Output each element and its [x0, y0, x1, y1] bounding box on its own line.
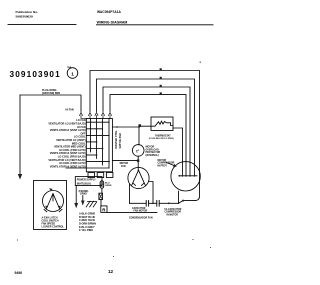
switch junction b: [96, 128, 98, 130]
fan motor windings: [132, 170, 146, 185]
switch junction h: [90, 148, 92, 150]
terminal pin 3: [102, 113, 105, 119]
switch junction d: [96, 141, 98, 143]
svg-text:THERMOSTAT: THERMOSTAT: [155, 134, 171, 137]
fan capacitor plates: [146, 200, 148, 206]
svg-text:309103901: 309103901: [10, 70, 61, 79]
rotated switch name: [115, 130, 122, 148]
header publication label: [16, 10, 39, 18]
splice tab on L4: [160, 92, 162, 94]
svg-text:FA CAPACITOR: FA CAPACITOR: [165, 208, 182, 211]
svg-text:GRND: GRND: [80, 194, 87, 196]
overload protector: [132, 145, 144, 157]
switch junction c: [102, 135, 104, 137]
switch row wire 6: [86, 154, 96, 156]
chassis ground symbol: [86, 201, 97, 207]
compressor terminal dots: [179, 175, 181, 177]
ground lead arrow: [82, 196, 84, 201]
svg-text:TAB: TAB: [67, 66, 72, 69]
svg-text:FAN MOTOR: FAN MOTOR: [134, 210, 148, 213]
svg-text:(COOLING OR LO FRIO): (COOLING OR LO FRIO): [149, 138, 174, 140]
power cord down lead: [19, 95, 21, 175]
fuse link: [100, 181, 104, 188]
fan motor left lead: [129, 184, 131, 203]
switch row wire 4: [86, 141, 96, 143]
svg-text:COMPRESSOR: COMPRESSOR: [165, 212, 182, 214]
wire loop L3: [103, 87, 190, 176]
switch row wire 7: [86, 161, 109, 163]
compressor motor: [171, 162, 200, 191]
svg-text:VENTILATOR HI (VENT ALTO): VENTILATOR HI (VENT ALTO): [50, 164, 86, 168]
fuse label: [105, 182, 112, 187]
part number 309103901: [10, 70, 61, 79]
compressor capacitor plates: [157, 200, 159, 206]
svg-text:Publication No.: Publication No.: [16, 10, 39, 14]
svg-text:t°: t°: [136, 148, 139, 153]
thermostat junction: [138, 124, 141, 127]
svg-text:(WHT) (BLK): (WHT) (BLK): [77, 182, 91, 185]
svg-text:WIRING DIAGRAM: WIRING DIAGRAM: [97, 21, 128, 25]
terminal pin 1: [89, 113, 92, 119]
splice tab on L2: [160, 77, 162, 79]
switch row wire 8: [66, 167, 109, 169]
knob feet: [44, 209, 62, 212]
power supply box: [75, 177, 102, 186]
capacitor junction 2: [168, 202, 170, 204]
power cord arrowhead: [18, 174, 22, 180]
thermostat feed wire: [112, 126, 139, 128]
interlock block: [101, 188, 103, 193]
knob pointer mark: [49, 188, 53, 191]
knob dial: [43, 191, 64, 212]
wire loop L4: [110, 95, 186, 176]
svg-text:12: 12: [108, 269, 114, 274]
fan motor right lead: [149, 182, 153, 204]
white lead arrow: [75, 186, 77, 204]
hook junction: [182, 200, 184, 202]
svg-text:5995209029: 5995209029: [16, 14, 33, 18]
switch row wire 1: [86, 121, 109, 123]
switch internal bus 1: [90, 119, 92, 153]
header left rule: [8, 24, 76, 26]
switch connector block 3: [106, 173, 113, 178]
motor compressor label: [158, 160, 175, 167]
switch junction e: [102, 148, 104, 150]
header model number: [97, 10, 121, 14]
switch internal bus 4: [108, 119, 110, 169]
compressor terminal bar: [179, 175, 197, 177]
svg-text:CONDENSADOR FAN: CONDENSADOR FAN: [129, 216, 153, 219]
thermostat contact: [141, 121, 173, 126]
svg-text:SWITCH BLK: SWITCH BLK: [119, 133, 122, 149]
thermostat output wire: [173, 128, 183, 176]
wiring legend: [79, 212, 96, 233]
knob legend text: [42, 216, 65, 228]
wire loop L1 (outermost, BLK): [90, 71, 200, 204]
switch connector block 1: [88, 173, 95, 178]
svg-text:COMPRESSOR: COMPRESSOR: [158, 163, 175, 165]
power supply text: [77, 178, 96, 185]
switch row wire 3: [86, 134, 109, 136]
svg-text:HI FAN: HI FAN: [66, 109, 74, 112]
switch junction g: [108, 161, 110, 163]
compressor pointer arrow: [167, 163, 175, 166]
svg-text:MASTER CTRL: MASTER CTRL: [115, 130, 118, 148]
svg-text:PROTECTOR: PROTECTOR: [146, 152, 161, 154]
compressor bottom lead: [178, 191, 180, 203]
control knob legend box: [34, 181, 67, 230]
svg-text:MOTOR: MOTOR: [158, 160, 167, 162]
motor tap wire: [112, 160, 136, 162]
svg-text:9496: 9496: [15, 271, 23, 275]
svg-text:IN MOTOR: IN MOTOR: [167, 214, 179, 216]
svg-text:WAC094P7A1A: WAC094P7A1A: [97, 10, 121, 14]
wire loop L2: [97, 79, 195, 176]
switch row wire 5: [86, 148, 102, 150]
thermostat label: [149, 134, 174, 140]
footer page number: [108, 269, 114, 274]
switch connector block 2: [97, 173, 104, 178]
splice tab on L1: [160, 68, 162, 70]
master switch box: [86, 119, 112, 172]
terminal pin 4: [109, 113, 112, 119]
svg-text:IN PROT: IN PROT: [158, 165, 168, 167]
overload lead: [138, 127, 140, 145]
header wiring diagram title: [97, 21, 128, 25]
header right rule: [97, 24, 214, 26]
switch row wire 2: [86, 128, 102, 130]
svg-text:CAPACITOR: CAPACITOR: [132, 207, 146, 210]
svg-text:(FRAME): (FRAME): [79, 190, 89, 193]
svg-text:OVERLOAD: OVERLOAD: [146, 148, 160, 151]
switch internal bus 2: [96, 119, 98, 159]
plug lead label: [42, 89, 60, 95]
motor compressor overload label: [146, 147, 161, 157]
frame ground label: [79, 190, 89, 196]
motor junction: [137, 160, 139, 162]
svg-text:GRND: GRND: [105, 185, 112, 187]
capacitor label: [129, 207, 153, 219]
fan motor label: [120, 163, 129, 168]
svg-text:MOTOR: MOTOR: [146, 147, 155, 149]
switch internal bus 3: [102, 119, 104, 166]
overload to motor lead: [137, 156, 139, 170]
bottom bus wire: [107, 211, 157, 213]
callout balloon 1: [67, 66, 78, 78]
fly speck: [200, 62, 201, 63]
terminal pin 2: [95, 113, 98, 119]
fan motor: [128, 167, 149, 188]
switch junction f: [96, 154, 98, 156]
switch junction a: [90, 121, 92, 123]
svg-text:1: 1: [71, 71, 74, 77]
feed terminal dot: [116, 126, 118, 128]
svg-text:BLU: BLU: [105, 182, 110, 184]
svg-text:POWER SUPPLY: POWER SUPPLY: [77, 178, 96, 181]
hi fan label above switch: [66, 109, 74, 112]
footer date code: [15, 271, 23, 275]
svg-text:LOUVER CONTROL: LOUVER CONTROL: [42, 225, 65, 228]
capacitor junction 1: [152, 202, 154, 204]
thermostat box: [151, 117, 173, 131]
svg-text:MOTOR: MOTOR: [120, 163, 129, 165]
svg-text:F-YEL PINK: F-YEL PINK: [79, 228, 93, 232]
knob needles: [47, 194, 60, 209]
run capacitor label: [165, 208, 182, 216]
plug wire: [20, 95, 81, 112]
capacitor bus: [130, 202, 179, 204]
svg-text:(INTERNAL): (INTERNAL): [146, 154, 160, 157]
resistor R box: [101, 206, 107, 213]
splice tab on L3: [160, 85, 162, 87]
terminal pin on plug wire: [80, 113, 87, 119]
switch position labels: [48, 118, 86, 168]
svg-text:FAN: FAN: [121, 165, 126, 168]
